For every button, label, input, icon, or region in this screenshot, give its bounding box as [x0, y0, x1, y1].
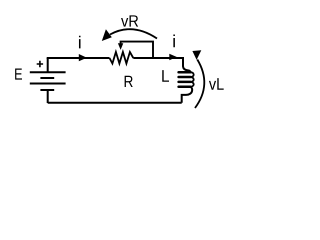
battery plus sign — [37, 61, 43, 67]
wire: battery top stub up to top rail — [47, 58, 49, 72]
label R — [125, 76, 133, 87]
inductor L coil turns — [179, 72, 194, 87]
label i (right) — [173, 35, 175, 48]
label E (source name) — [15, 68, 22, 79]
inductor right side connector bumps — [190, 72, 193, 77]
vR drop arrow bracket over resistor — [121, 42, 153, 58]
wire: inductor bottom lead — [182, 87, 192, 103]
wire: bottom rail — [48, 102, 182, 104]
battery E plates — [30, 72, 66, 90]
vL curved arrow arc — [195, 60, 204, 109]
vR arc arrowhead (points left) — [102, 29, 112, 41]
wire: battery bottom stub — [47, 90, 49, 103]
vR curved arrow arc — [110, 29, 157, 38]
resistor R zigzag — [110, 52, 134, 64]
label L — [162, 70, 169, 82]
wire: top-right corner down into inductor — [183, 57, 190, 72]
vR bracket arrowhead (points down at resistor) — [118, 43, 123, 50]
label vL — [209, 78, 224, 90]
wire: top rail right segment (resistor to inductor corner) — [133, 57, 184, 59]
label i (left) — [79, 36, 81, 49]
label vR — [121, 15, 138, 26]
wire: top rail left segment (battery to resistor) — [47, 57, 110, 59]
vL arc arrowhead (points up-left) — [192, 50, 201, 60]
current arrow i (left) — [79, 54, 87, 61]
current arrow i (right) — [169, 54, 177, 61]
